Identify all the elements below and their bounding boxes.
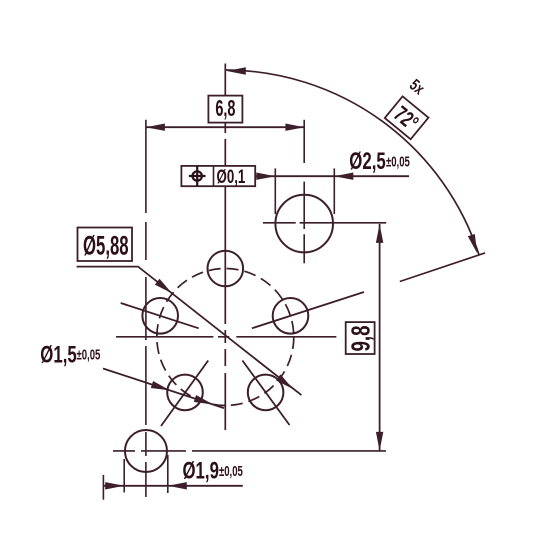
frame box 72 rotated xyxy=(385,96,429,139)
arrowhead 1,9 right-pointing xyxy=(105,482,124,489)
frame box 6,8 xyxy=(208,96,242,123)
position symbol xyxy=(189,166,206,186)
hole 1,5 left xyxy=(142,298,178,334)
frame box 9,8 xyxy=(346,322,375,354)
svg-text:6,8: 6,8 xyxy=(215,97,235,122)
svg-text:9,8: 9,8 xyxy=(345,325,375,351)
arrowhead 2,5 left-pointing xyxy=(334,173,353,180)
arrowhead 1,5 on bolt circle xyxy=(194,395,213,404)
arrowhead 5,88 outer xyxy=(276,374,293,389)
dimension line diameter 2,5 xyxy=(255,175,409,177)
angular dimension arc 72 xyxy=(225,70,479,255)
label diameter 2,5 with tolerance xyxy=(349,148,410,175)
arrowhead 9,8 up xyxy=(376,224,383,243)
centerline horizontal hole 2,5 xyxy=(263,222,386,224)
centerline horizontal pattern xyxy=(116,336,336,338)
arrowhead 6,8 left xyxy=(146,124,165,131)
radial centerline right hole xyxy=(252,292,364,328)
arrowhead 1,5 on hole xyxy=(151,381,170,390)
leader 1,5 xyxy=(103,369,224,409)
arrowhead arc bottom xyxy=(468,234,477,253)
label diameter 1,5 with tolerance xyxy=(40,342,100,369)
svg-text:Ø1,5: Ø1,5 xyxy=(40,342,76,369)
hole 1,5 bottom-left xyxy=(167,375,203,411)
extension line right tangent 1,9 xyxy=(167,455,169,493)
svg-text:Ø1,9: Ø1,9 xyxy=(183,458,219,485)
svg-text:Ø5,88: Ø5,88 xyxy=(83,230,129,260)
hole 2,5 circle xyxy=(275,195,333,253)
svg-text:±0,05: ±0,05 xyxy=(386,154,410,171)
dimension line diameter 1,9 xyxy=(103,485,242,487)
arrowhead 6,8 right xyxy=(285,124,304,131)
arrowhead fcf leader right xyxy=(256,173,275,180)
dimension line 9,8 xyxy=(379,224,381,451)
svg-text:Ø2,5: Ø2,5 xyxy=(349,148,385,175)
arrowhead 1,9 left-pointing xyxy=(168,482,187,489)
angle extension line xyxy=(400,253,485,282)
arrowhead 9,8 down xyxy=(376,432,383,451)
hole 1,9 circle xyxy=(125,430,167,472)
extension line left tangent 1,9 xyxy=(123,459,125,493)
centerline vertical main axis xyxy=(224,64,226,431)
extension line right tangent 2,5 xyxy=(333,168,335,214)
frame box 5,88 xyxy=(78,228,133,262)
feature control frame xyxy=(181,166,255,186)
hole 1,5 bottom-right xyxy=(248,375,284,411)
leader 5,88 with shoulder xyxy=(77,267,302,396)
radial centerline left hole xyxy=(121,303,199,328)
extension line far left xyxy=(102,475,104,500)
hole 1,5 right xyxy=(273,298,309,334)
centerline vertical left axis (hole 1,9) xyxy=(145,120,147,497)
svg-text:Ø0,1: Ø0,1 xyxy=(217,167,246,188)
centerline vertical hole 2,5 xyxy=(303,120,305,264)
svg-text:±0,05: ±0,05 xyxy=(219,463,243,480)
arrowhead 5,88 on bolt circle xyxy=(155,279,172,294)
radial centerline bottom-left hole xyxy=(161,361,208,427)
hole 1,5 top xyxy=(208,251,244,287)
bolt circle 5,88 dashed xyxy=(157,269,294,406)
svg-text:5x: 5x xyxy=(406,76,428,99)
centerline horizontal hole 1,9 xyxy=(113,450,386,452)
arrowhead arc top xyxy=(227,67,246,74)
radial centerline bottom-right hole xyxy=(242,361,289,426)
dimension line 6,8 xyxy=(146,126,305,128)
extension line left tangent 2,5 xyxy=(274,168,276,214)
svg-text:±0,05: ±0,05 xyxy=(77,347,101,364)
label diameter 1,9 with tolerance xyxy=(183,458,243,485)
